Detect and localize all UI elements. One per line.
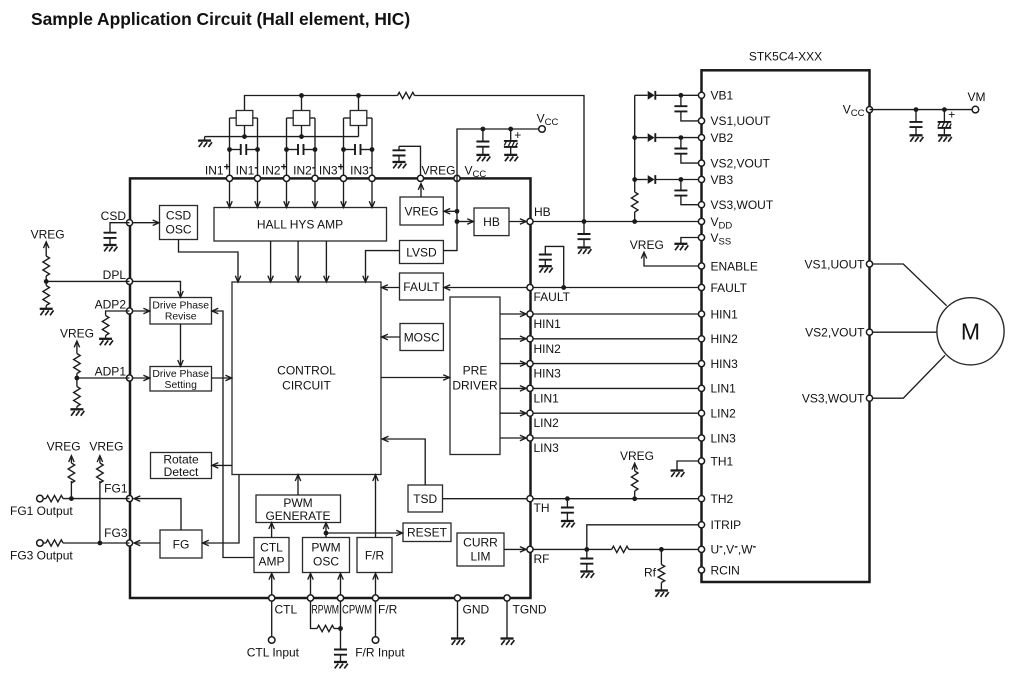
svg-text:DPL: DPL xyxy=(103,268,127,282)
wire VM cap2 gnd lead xyxy=(943,128,945,135)
arrowhead HB out to pin xyxy=(520,219,526,225)
pin FAULT main xyxy=(527,284,533,290)
wire Rf gnd lead xyxy=(660,583,662,591)
wire pre driver out LIN3 xyxy=(500,437,526,439)
junction bootstrap C3 xyxy=(679,177,684,182)
pin VS2VOUT STK right xyxy=(866,329,872,335)
svg-text:VB3: VB3 xyxy=(711,173,734,187)
wire DPL divider top xyxy=(45,243,47,257)
capacitor across IN3 xyxy=(355,144,361,155)
block HALL HYS AMP xyxy=(214,208,387,242)
pin HIN1 main xyxy=(527,311,533,317)
wire C1 right lead xyxy=(246,149,257,151)
capacitor VCC electrolytic xyxy=(504,141,518,147)
svg-text:LIN1: LIN1 xyxy=(534,391,560,405)
resistor FG3 pullup xyxy=(97,463,104,483)
wire IN3+ to hall amp xyxy=(343,182,345,207)
wire VCC rail to HB block xyxy=(457,221,473,223)
wire C3 left lead xyxy=(344,149,356,151)
pin IN3- xyxy=(369,175,375,181)
pin VS1UOUT STK xyxy=(698,118,704,124)
wire H2 top stub xyxy=(301,96,303,111)
svg-text:HALL HYS AMP: HALL HYS AMP xyxy=(257,218,343,232)
wire H3 bottom stub xyxy=(358,126,360,137)
arrowhead RPWM into PWM OSC xyxy=(308,573,314,579)
wire FG1 pullup top xyxy=(70,457,72,464)
arrowhead hall amp out x270.6 xyxy=(268,276,274,282)
arrowhead VREG up to pin xyxy=(418,184,424,190)
arrowhead LIN1 at pin xyxy=(520,386,526,392)
wire Rf lead xyxy=(660,549,662,564)
pin LIN1 STK xyxy=(698,385,704,391)
svg-text:GENERATE: GENERATE xyxy=(265,509,330,523)
pin LIN3 STK xyxy=(698,435,704,441)
wire LIN2 row xyxy=(530,412,702,414)
svg-text:STK5C4-XXX: STK5C4-XXX xyxy=(749,50,822,64)
wire FG3 term lead xyxy=(43,542,46,544)
wire to RESET block xyxy=(326,532,402,534)
pin VREG top xyxy=(417,175,423,181)
wire bootstrap C1 to VS xyxy=(681,111,702,121)
pin HIN2 main xyxy=(527,336,533,342)
wire FG3 to pin xyxy=(63,542,130,544)
arrowhead LIN3 at pin xyxy=(520,435,526,441)
svg-text:CTL Input: CTL Input xyxy=(247,646,300,660)
wire bootstrap C3 to VS xyxy=(681,196,702,205)
pin IN2+ xyxy=(283,175,289,181)
wire pre driver out HIN2 xyxy=(500,338,526,340)
block Drive Phase Setting xyxy=(150,367,212,392)
wire IN3+ stub to H3 xyxy=(344,117,351,119)
wire LVSD to control xyxy=(366,251,400,282)
wire GND lead xyxy=(457,602,459,639)
wire Setting to control xyxy=(212,377,232,379)
wire TSD to TH pin xyxy=(443,498,531,500)
arrowhead into FAULT block xyxy=(444,285,450,291)
hall element H3 xyxy=(350,111,367,126)
svg-text:+: + xyxy=(514,128,521,142)
wire VCC rail to VREG block xyxy=(445,210,458,212)
arrowhead PWMOSC into PWMGEN xyxy=(323,523,329,529)
ground ADP1 divider xyxy=(70,409,84,415)
capacitor CPWM xyxy=(334,650,347,655)
pin VSS STK xyxy=(698,234,704,240)
wire HIN3 row xyxy=(530,363,702,365)
block CTL AMP xyxy=(254,538,289,573)
block F/R xyxy=(357,538,392,573)
arrowhead PWMGEN into control xyxy=(295,475,301,481)
ground hall common xyxy=(198,141,212,147)
svg-text:ENABLE: ENABLE xyxy=(711,259,758,273)
wire RF row right xyxy=(629,548,702,550)
capacitor across IN1 xyxy=(241,144,247,155)
svg-text:VREG: VREG xyxy=(47,440,81,454)
wire RPWM pin to PWM OSC xyxy=(310,575,312,599)
svg-text:VREG: VREG xyxy=(404,204,438,218)
wire IN2- stub to H2 xyxy=(310,117,315,119)
pin VS3WOUT STK right xyxy=(866,395,872,401)
wire CSD cap link xyxy=(110,223,130,233)
svg-text:HB: HB xyxy=(483,215,500,229)
wire control to pre driver xyxy=(381,377,449,379)
wire VS1 to motor xyxy=(873,264,947,306)
pin TH main xyxy=(527,496,533,502)
junction VCC cap2 xyxy=(508,127,513,132)
block CURR LIM xyxy=(457,533,504,566)
pin IN3+ xyxy=(340,175,346,181)
svg-text:HB: HB xyxy=(534,205,551,219)
resistor TH pullup xyxy=(631,471,638,491)
terminal FG3 output xyxy=(37,540,44,547)
arrowhead F/R into block xyxy=(373,573,379,579)
junction hall common H2 xyxy=(299,134,304,139)
block FAULT xyxy=(400,273,444,300)
wire IN1- vertical xyxy=(257,118,259,178)
block CSD OSC xyxy=(160,206,198,240)
svg-text:FAULT: FAULT xyxy=(403,280,440,294)
svg-text:GND: GND xyxy=(463,603,490,617)
svg-text:TH: TH xyxy=(534,501,550,515)
resistor top rail xyxy=(398,92,415,98)
wire VCC cap1 lead xyxy=(482,129,484,142)
arrowhead VREG TH xyxy=(632,463,638,469)
capacitor VCC filter xyxy=(476,142,489,147)
arrowhead HIN2 at pin xyxy=(520,336,526,342)
wire H3 top stub xyxy=(358,96,360,111)
pin IN1- xyxy=(254,175,260,181)
svg-text:CSD: CSD xyxy=(101,209,127,223)
svg-text:PRE: PRE xyxy=(463,364,488,378)
wire CSD OSC to control xyxy=(179,240,239,282)
pin HIN2 STK xyxy=(698,336,704,342)
wire ADP1 divider top xyxy=(76,342,78,354)
wire TH cap lead xyxy=(566,499,568,508)
wire PWM OSC to PWM GENERATE xyxy=(325,524,327,538)
svg-text:ADP1: ADP1 xyxy=(95,365,127,379)
pin TH2 STK xyxy=(698,496,704,502)
arrowhead FG out at FG3 xyxy=(134,540,140,546)
wire ENABLE VREG link xyxy=(644,253,702,266)
pin UVW STK xyxy=(698,546,704,552)
svg-text:Rf: Rf xyxy=(644,566,657,580)
arrowhead VREG ENABLE xyxy=(641,252,647,258)
pin VB1 STK xyxy=(698,92,704,98)
wire pre driver out LIN1 xyxy=(500,387,526,389)
pin HB xyxy=(527,218,533,224)
block PRE DRIVER xyxy=(450,297,500,455)
ground VM cap2 xyxy=(938,135,952,141)
junction top rail H2 xyxy=(299,93,304,98)
wire control to FG xyxy=(203,475,239,544)
pin FG3 xyxy=(126,540,132,546)
wire pre driver out HIN1 xyxy=(500,313,526,315)
svg-text:FG: FG xyxy=(173,537,190,551)
pin GND bottom xyxy=(454,595,460,601)
svg-text:F/R Input: F/R Input xyxy=(355,646,405,660)
arrowhead ADP1 into Setting xyxy=(143,375,149,381)
junction FG1 pullup xyxy=(69,496,74,501)
junction C1 left xyxy=(227,147,232,152)
wire CPWM pin to PWM OSC xyxy=(340,575,342,599)
pin CSD xyxy=(126,220,132,226)
junction bootstrap C2 xyxy=(679,135,684,140)
ground VM cap1 xyxy=(910,135,924,141)
junction HB row top rail xyxy=(582,219,587,224)
wire VM cap1 lead xyxy=(915,110,917,122)
capacitor TH xyxy=(561,508,574,513)
svg-text:F/R: F/R xyxy=(365,549,385,563)
arrowhead into HB block xyxy=(467,219,473,225)
motor M xyxy=(937,298,1004,365)
main driver IC outline xyxy=(130,178,531,598)
wire pre driver out HIN3 xyxy=(500,363,526,365)
resistor ADP1 upper xyxy=(74,354,81,374)
svg-text:PWM: PWM xyxy=(311,541,340,555)
wire CTL pin to CTL AMP xyxy=(271,575,273,599)
pin HIN1 STK xyxy=(698,311,704,317)
svg-text:CIRCUIT: CIRCUIT xyxy=(282,379,331,393)
capacitor CSD xyxy=(104,233,117,238)
arrowhead VREG FG3 xyxy=(97,456,103,462)
wire VM cap1 gnd lead xyxy=(915,127,917,135)
arrowhead CPWM into PWM OSC xyxy=(338,573,344,579)
arrowhead LVSD into control xyxy=(363,276,369,282)
pin LIN1 main xyxy=(527,385,533,391)
junction VCC rail HB xyxy=(455,219,460,224)
wire CPWM ext xyxy=(340,602,342,650)
junction ADP1 divider xyxy=(75,376,80,381)
junction VCC rail VREG xyxy=(455,209,460,214)
wire CTL AMP to PWM GENERATE xyxy=(271,524,273,538)
svg-text:CTL: CTL xyxy=(260,541,283,555)
block RESET xyxy=(403,523,451,542)
wire VCC supply xyxy=(457,129,539,178)
svg-text:Drive Phase: Drive Phase xyxy=(152,301,209,312)
wire IN1+ stub to H1 xyxy=(230,117,237,119)
wire hall common rail xyxy=(205,136,359,138)
pin CPWM bottom xyxy=(337,595,343,601)
block MOSC xyxy=(400,324,443,351)
pin ADP2 xyxy=(126,308,132,314)
arrowhead ADP2 into Revise xyxy=(143,308,149,314)
svg-text:AMP: AMP xyxy=(258,555,284,569)
svg-text:U-,V-,W-: U-,V-,W- xyxy=(711,541,757,557)
junction RPWM CPWM xyxy=(338,626,343,631)
svg-text:F/R: F/R xyxy=(378,603,398,617)
svg-text:HIN1: HIN1 xyxy=(534,317,562,331)
wire IN3+ vertical xyxy=(343,118,345,178)
wire Revise to Setting xyxy=(180,324,182,366)
junction Rf resistor xyxy=(659,547,664,552)
block LVSD xyxy=(400,241,444,264)
wire VCC cap1 gnd lead xyxy=(482,147,484,155)
wire PWM GENERATE to control xyxy=(297,476,299,496)
svg-text:VB1: VB1 xyxy=(711,89,734,103)
junction top rail H3 xyxy=(356,93,361,98)
resistor RPWM xyxy=(317,625,334,631)
terminal CTL Input xyxy=(268,637,275,644)
wire FG to FG3 pin xyxy=(135,542,161,544)
pin RPWM bottom xyxy=(307,595,313,601)
wire IN1- to hall amp xyxy=(257,182,259,207)
svg-text:HIN2: HIN2 xyxy=(711,332,739,346)
ground Rf xyxy=(655,591,669,597)
pin IN2- xyxy=(312,175,318,181)
capacitor bootstrap C1 xyxy=(674,106,687,111)
wire CTL AMP feedback to Revise xyxy=(213,311,254,558)
wire VREG cap lead xyxy=(398,146,400,150)
wire CPWM cap gnd lead xyxy=(340,655,342,662)
wire IN1+ to hall amp xyxy=(229,182,231,207)
wire ADP1 to Setting xyxy=(130,377,150,379)
arrowhead into Rotate Detect xyxy=(212,463,218,469)
svg-text:TSD: TSD xyxy=(413,492,437,506)
pin TH1 STK xyxy=(698,458,704,464)
junction FG3 pullup xyxy=(98,541,103,546)
arrowhead hall amp out x298.1 xyxy=(295,276,301,282)
wire RF cap lead xyxy=(586,549,588,558)
wire VM cap2 lead xyxy=(943,110,945,122)
block VREG xyxy=(400,197,443,225)
wire diode D3 anode xyxy=(635,179,648,181)
svg-text:OSC: OSC xyxy=(165,223,191,237)
svg-text:Detect: Detect xyxy=(164,465,199,479)
svg-text:MOSC: MOSC xyxy=(404,330,440,344)
resistor DPL upper xyxy=(43,256,50,276)
wire ADP2 ext xyxy=(106,311,130,316)
ground VCC cap2 xyxy=(504,155,518,161)
wire HIN2 row xyxy=(530,338,702,340)
wire FG1 pullup lead xyxy=(70,481,72,499)
arrowhead TSD into control xyxy=(382,436,388,442)
pin VB2 STK xyxy=(698,135,704,141)
wire VREG block to pin xyxy=(420,185,422,198)
arrowhead VREG DPL divider xyxy=(43,242,49,248)
pin LIN3 main xyxy=(527,435,533,441)
svg-text:VREG: VREG xyxy=(630,238,664,252)
arrowhead HIN1 at pin xyxy=(520,311,526,317)
wire TH cap gnd lead xyxy=(566,513,568,521)
resistor DPL lower xyxy=(43,286,50,306)
arrowhead IN3+ into hall amp xyxy=(341,201,347,207)
pin VDD STK xyxy=(698,218,704,224)
arrowhead CTL into CTL AMP xyxy=(269,573,275,579)
wire IN2+ to hall amp xyxy=(286,182,288,207)
arrowhead at FG1 pin xyxy=(134,496,140,502)
svg-text:FAULT: FAULT xyxy=(711,281,748,295)
wire C1 left lead xyxy=(230,149,241,151)
wire HB cap gnd lead xyxy=(583,239,585,247)
wire diode D2 anode xyxy=(635,137,648,139)
svg-text:VREG: VREG xyxy=(60,327,94,341)
svg-text:RF: RF xyxy=(534,552,550,566)
junction TH cap xyxy=(565,496,570,501)
svg-text:ITRIP: ITRIP xyxy=(711,518,742,532)
arrowhead CURR LIM at RF pin xyxy=(520,547,526,553)
svg-text:CSD: CSD xyxy=(166,209,192,223)
junction DPL divider xyxy=(44,279,49,284)
block HB xyxy=(474,208,509,236)
junction VM cap1 xyxy=(914,107,919,112)
pin LIN2 STK xyxy=(698,410,704,416)
wire FG top to FG1 pin xyxy=(135,499,182,530)
wire FG3 pullup top xyxy=(99,457,101,464)
arrowhead into pre driver xyxy=(443,375,449,381)
wire diode rail xyxy=(634,95,636,192)
wire FG1 term lead xyxy=(43,498,46,500)
wire TH pullup top xyxy=(634,464,636,471)
wire hall common ground stub xyxy=(204,137,206,141)
svg-text:LIN3: LIN3 xyxy=(711,431,737,445)
wire RF cap gnd lead xyxy=(586,564,588,572)
pin ADP1 xyxy=(126,375,132,381)
svg-text:FG3 Output: FG3 Output xyxy=(10,549,73,563)
pin VB3 STK xyxy=(698,176,704,182)
svg-text:TH2: TH2 xyxy=(711,492,734,506)
pin F/R bottom xyxy=(372,595,378,601)
diode D1 xyxy=(648,91,656,100)
pin VCC top xyxy=(454,175,460,181)
wire VCC cap2 gnd lead xyxy=(510,147,512,155)
capacitor FAULT xyxy=(539,255,552,260)
ground VREG cap xyxy=(393,162,407,168)
junction hall common H1 xyxy=(242,134,247,139)
terminal VCC supply xyxy=(539,126,546,133)
wire control to Rotate Detect xyxy=(213,464,232,466)
ground GND pin xyxy=(451,639,465,645)
arrowhead VREG FG1 xyxy=(69,456,75,462)
wire IN2- to hall amp xyxy=(314,182,316,207)
wire pre driver out LIN2 xyxy=(500,412,526,414)
junction PWM OSC reset tap xyxy=(324,531,329,536)
pin VS2VOUT STK xyxy=(698,160,704,166)
arrowhead HIN3 at pin xyxy=(520,361,526,367)
svg-text:VS2,VOUT: VS2,VOUT xyxy=(711,156,771,170)
pin LIN2 main xyxy=(527,410,533,416)
diode D3 xyxy=(648,175,656,184)
svg-text:FG1: FG1 xyxy=(104,482,128,496)
pin ENABLE STK xyxy=(698,263,704,269)
wire ADP1 divider mid xyxy=(76,374,78,387)
wire TGND lead xyxy=(506,602,508,639)
wire IN2+ stub to H2 xyxy=(287,117,294,119)
wire RF row xyxy=(530,548,612,550)
wire FG3 pullup lead xyxy=(99,481,101,543)
wire IN3- stub to H3 xyxy=(367,117,372,119)
ground DPL divider xyxy=(40,309,54,315)
svg-text:VREG: VREG xyxy=(421,164,455,178)
wire IN2+ vertical xyxy=(286,118,288,178)
svg-text:TH1: TH1 xyxy=(711,454,734,468)
pin VS3WOUT STK xyxy=(698,202,704,208)
wire TH pullup lead xyxy=(634,491,636,499)
resistor ADP2 xyxy=(102,316,109,336)
ground FAULT cap xyxy=(539,266,553,272)
wire MOSC to control xyxy=(382,336,400,338)
arrowhead IN1+ into hall amp xyxy=(227,201,233,207)
wire bootstrap C3 lead xyxy=(680,180,682,191)
svg-text:Sample Application Circuit (Ha: Sample Application Circuit (Hall element… xyxy=(31,9,410,29)
ground CPWM cap xyxy=(334,662,348,668)
svg-text:CPWM: CPWM xyxy=(342,603,372,617)
wire C2 right lead xyxy=(304,149,316,151)
pin DPL xyxy=(126,278,132,284)
svg-text:DRIVER: DRIVER xyxy=(452,379,498,393)
svg-text:VM: VM xyxy=(968,90,986,104)
svg-text:VREG: VREG xyxy=(620,449,654,463)
wire VCC internal rail xyxy=(443,178,457,250)
wire IN3- vertical xyxy=(371,118,373,178)
